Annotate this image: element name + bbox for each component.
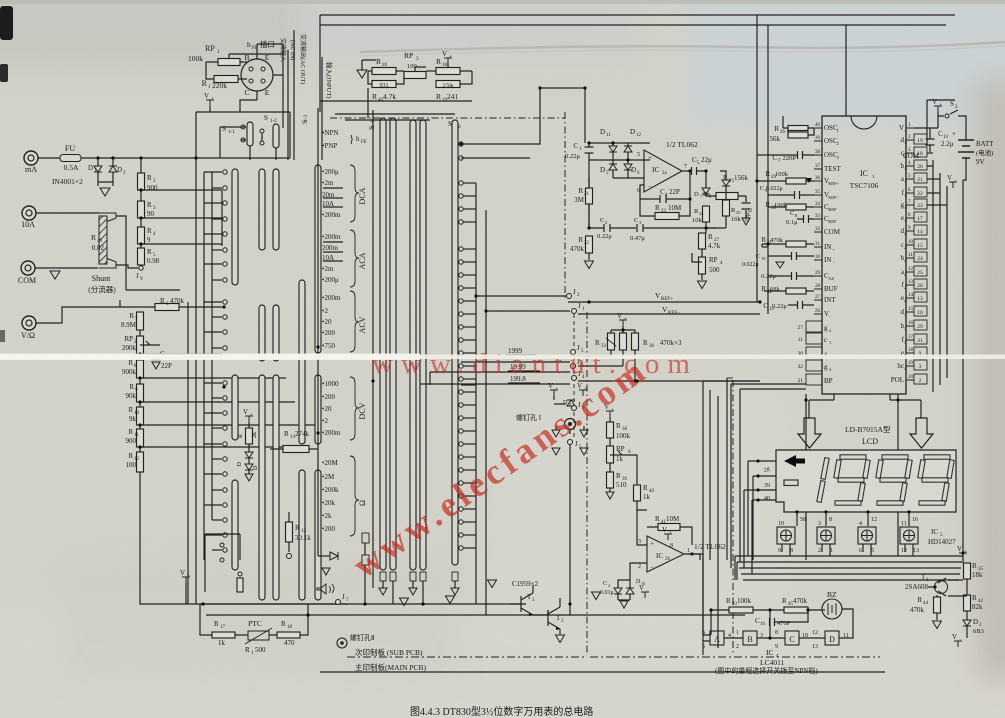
svg-text:6: 6 [859, 548, 862, 554]
svg-text:22μ: 22μ [701, 156, 712, 164]
ground top mid [357, 70, 367, 78]
svg-text:4: 4 [859, 521, 862, 527]
svg-text:1k: 1k [643, 493, 651, 501]
capacitor C2 0.22u [589, 160, 604, 228]
diode D2 [112, 158, 114, 166]
svg-text:470k: 470k [910, 606, 925, 614]
svg-text:+: + [939, 103, 942, 108]
op-amp IC2b [647, 536, 684, 572]
resistor R42 82k [966, 579, 968, 595]
svg-text:B: B [244, 53, 249, 62]
svg-text:R: R [295, 524, 300, 532]
svg-text:V/Ω: V/Ω [21, 331, 35, 340]
capacitor C3 0.47u [610, 227, 636, 229]
capacitor C6 22u [745, 196, 747, 202]
svg-text:V: V [639, 584, 644, 592]
svg-text:D: D [600, 166, 605, 174]
svg-text:11: 11 [901, 521, 907, 527]
svg-text:470k: 470k [770, 237, 784, 244]
svg-text:C: C [756, 253, 760, 260]
svg-text:ACV: ACV [358, 316, 367, 333]
svg-text:8: 8 [829, 517, 832, 523]
svg-text:+: + [648, 154, 652, 162]
svg-text:10: 10 [761, 256, 766, 261]
svg-text:14: 14 [917, 229, 923, 235]
node J1 [486, 310, 570, 312]
LCD digit 9 (b) [882, 455, 908, 459]
svg-text:IN: IN [824, 256, 831, 264]
gate C [785, 631, 799, 645]
svg-text:10k: 10k [692, 217, 703, 224]
svg-text:27: 27 [798, 325, 804, 331]
XOR gates IC5 [777, 527, 795, 544]
dashed vertical J column [573, 314, 575, 440]
svg-text:bc: bc [897, 362, 904, 370]
svg-text:C: C [790, 210, 794, 217]
svg-text:1-2: 1-2 [270, 119, 277, 124]
svg-text:(AC IN): (AC IN) [289, 40, 296, 60]
svg-text:28: 28 [763, 467, 770, 474]
svg-text:1: 1 [904, 218, 906, 223]
resistor R10 9k [139, 402, 141, 407]
wire battery minus down [963, 166, 966, 560]
svg-text:FU: FU [65, 144, 75, 153]
resistor R13 2k [245, 416, 253, 422]
resistor R27 4.7k [705, 228, 707, 233]
svg-text:2: 2 [904, 245, 906, 250]
bottom of wafer bars grounds [380, 572, 386, 581]
svg-text:900k: 900k [122, 368, 137, 376]
svg-text:(分流器): (分流器) [88, 284, 116, 294]
svg-text:R: R [372, 92, 377, 101]
svg-text:0.02: 0.02 [92, 244, 105, 252]
wire bundle left of LCD [731, 384, 740, 568]
svg-text:−: − [959, 638, 962, 643]
svg-text:100k: 100k [775, 171, 789, 178]
wires IC1 bottom to LCD [809, 394, 921, 418]
resistor R1 220k [214, 76, 238, 83]
svg-text:•2: •2 [322, 417, 328, 425]
svg-text:C: C [603, 581, 607, 587]
svg-text:22P: 22P [669, 188, 680, 196]
svg-text:IC: IC [652, 165, 660, 174]
resistor R44 470k [934, 597, 941, 613]
svg-text:37: 37 [815, 164, 821, 169]
svg-text:S: S [950, 100, 954, 108]
bus verticals left of LCD [703, 378, 727, 655]
svg-text:•20k: •20k [322, 499, 335, 507]
svg-text:10M: 10M [668, 204, 682, 212]
resistor R39 510 [609, 463, 611, 472]
svg-text:D: D [829, 635, 835, 644]
svg-text:34: 34 [815, 202, 821, 207]
svg-text:S: S [448, 120, 452, 128]
resistor R11 900 [139, 425, 141, 429]
grounds at screw [556, 426, 584, 434]
svg-text:18: 18 [908, 348, 914, 353]
svg-text:Ω: Ω [358, 500, 367, 506]
bus under gates [735, 555, 963, 557]
svg-text:R: R [774, 125, 779, 133]
svg-text:2: 2 [818, 548, 821, 554]
svg-text:1k: 1k [218, 639, 226, 647]
terminal J9 [140, 265, 142, 266]
svg-text:R: R [616, 472, 621, 480]
svg-text:12: 12 [636, 133, 642, 138]
svg-text:8: 8 [775, 630, 778, 636]
jack 10A [22, 206, 36, 220]
svg-text:0.22μ: 0.22μ [597, 233, 612, 240]
svg-text:23: 23 [917, 203, 923, 209]
svg-text:ACA: ACA [358, 252, 367, 269]
watermark elecfans [346, 349, 656, 586]
svg-text:31: 31 [917, 338, 923, 344]
resistor R9 90k [139, 378, 141, 384]
svg-text:28: 28 [815, 284, 821, 289]
svg-text:BZ: BZ [827, 590, 837, 599]
wire V/ohm [36, 307, 140, 323]
boundary wire x318 [317, 108, 319, 556]
V+ pair at J8 [550, 390, 558, 396]
svg-text:E: E [265, 53, 270, 62]
svg-text:R: R [129, 383, 134, 391]
svg-text:BP: BP [824, 377, 833, 385]
svg-text:C: C [748, 208, 754, 212]
svg-text:J: J [573, 288, 576, 296]
svg-text:220P: 220P [783, 155, 797, 162]
svg-text:R: R [578, 236, 583, 244]
dash-dot right border [727, 377, 733, 379]
contacts bottom left block [205, 534, 240, 592]
svg-text:R: R [578, 187, 583, 195]
svg-text:38: 38 [815, 150, 821, 155]
junction dots [96, 156, 99, 159]
svg-text:58: 58 [800, 517, 806, 523]
svg-text:D: D [630, 128, 635, 136]
svg-text:19: 19 [917, 138, 923, 144]
svg-text:2: 2 [904, 298, 906, 303]
svg-text:S: S [222, 124, 226, 133]
svg-text:1: 1 [904, 166, 906, 171]
svg-text:−: − [646, 589, 649, 594]
svg-text:30.1k: 30.1k [295, 534, 311, 542]
svg-text:V: V [932, 98, 937, 106]
svg-text:29: 29 [815, 271, 821, 276]
svg-text:2: 2 [904, 231, 906, 236]
svg-text:•20: •20 [322, 318, 332, 326]
svg-text:C: C [760, 185, 764, 192]
svg-text:32: 32 [798, 364, 804, 370]
svg-text:•2m: •2m [322, 179, 334, 187]
wire mA rail [81, 157, 290, 159]
svg-text:C: C [244, 88, 249, 97]
svg-text:R: R [147, 174, 152, 182]
svg-text:+: + [187, 574, 190, 579]
LCD digit 9 (a) [840, 455, 866, 459]
svg-text:18: 18 [287, 625, 293, 630]
svg-text:图4.4.3 DT830型3½位数字万用表的总电路: 图4.4.3 DT830型3½位数字万用表的总电路 [410, 705, 593, 718]
svg-text:R: R [91, 233, 96, 242]
svg-text:21: 21 [584, 192, 590, 197]
resistor R7 8.9M [137, 312, 144, 330]
V+ bottom left [182, 577, 190, 583]
svg-text:0.22μ: 0.22μ [772, 303, 787, 310]
svg-text:D: D [694, 191, 699, 198]
svg-text:R: R [147, 248, 152, 256]
svg-text:R: R [761, 285, 766, 293]
svg-text:40: 40 [815, 123, 821, 128]
svg-text:R: R [643, 484, 648, 492]
svg-text:1: 1 [904, 193, 906, 198]
svg-text:D: D [237, 461, 243, 466]
svg-text:241: 241 [447, 92, 459, 101]
svg-text:6Β3: 6Β3 [973, 628, 984, 635]
svg-text:•2: •2 [322, 307, 328, 315]
resistor R4 9 [140, 218, 142, 227]
svg-text:IN: IN [824, 243, 831, 251]
svg-text:•200μ: •200μ [322, 276, 339, 284]
svg-text:3M: 3M [574, 196, 585, 204]
jack COM [21, 261, 35, 275]
svg-text:17: 17 [220, 625, 226, 630]
svg-text:32: 32 [815, 227, 821, 232]
svg-text:21: 21 [917, 177, 923, 183]
svg-text:•200m: •200m [322, 294, 341, 302]
svg-text:+: + [211, 97, 214, 102]
resistor R26b 10k [725, 186, 727, 200]
capacitor C17 22P [140, 356, 152, 358]
wire V+ rail right [914, 116, 938, 128]
svg-text:REF: REF [828, 207, 837, 212]
svg-text:1: 1 [829, 340, 831, 345]
svg-text:D: D [117, 166, 122, 174]
diode D8 [554, 396, 566, 404]
resistor R6 470k [119, 300, 121, 307]
svg-text:0.22μ: 0.22μ [565, 153, 580, 160]
svg-text:19: 19 [908, 361, 914, 366]
svg-text:11: 11 [606, 133, 611, 138]
svg-text:C: C [573, 142, 578, 150]
svg-text:9: 9 [775, 644, 778, 650]
jack mA [24, 151, 38, 165]
svg-text:c: c [824, 336, 827, 344]
svg-text:500: 500 [709, 266, 720, 274]
diodes D9 D10 [618, 580, 630, 588]
svg-text:•2M: •2M [322, 473, 335, 481]
svg-text:156k: 156k [734, 174, 749, 182]
svg-text:8.9M: 8.9M [121, 321, 137, 329]
contact column S1-6 [459, 142, 463, 146]
svg-text:R: R [643, 339, 648, 347]
jack V/ohm [22, 316, 36, 330]
svg-text:交流输出(AC OUT): 交流输出(AC OUT) [299, 34, 307, 84]
svg-text:R: R [708, 233, 713, 241]
svg-text:•200m: •200m [322, 211, 341, 219]
svg-text:270k: 270k [443, 83, 454, 89]
svg-text:•200: •200 [322, 393, 335, 401]
svg-text:16: 16 [912, 517, 918, 523]
svg-text:R: R [129, 312, 134, 320]
wire R12 bottom long [140, 472, 348, 604]
resistor R35 18k [959, 553, 967, 559]
svg-text:56k: 56k [770, 135, 781, 143]
LCD digit 1 [821, 458, 829, 480]
svg-text:0.1μ: 0.1μ [786, 219, 798, 226]
svg-text:主印制板(MAIN PCB): 主印制板(MAIN PCB) [355, 662, 427, 672]
resistor R8 900k [139, 354, 141, 360]
svg-text:22: 22 [917, 191, 923, 197]
svg-text:100k: 100k [616, 432, 631, 440]
svg-text:}: } [349, 133, 354, 145]
svg-text:LD-B7015A型: LD-B7015A型 [845, 425, 891, 434]
block arrow left [798, 418, 821, 448]
svg-text:R: R [761, 236, 766, 244]
svg-text:E: E [265, 88, 270, 97]
svg-text:R: R [595, 339, 600, 347]
svg-text:3: 3 [638, 539, 641, 545]
svg-text:2: 2 [605, 220, 607, 225]
diodes D7 D8b [705, 184, 707, 188]
svg-text:R: R [376, 57, 381, 66]
svg-text:R: R [128, 359, 133, 367]
svg-text:RP: RP [709, 256, 718, 264]
potentiometer RP4 500 [701, 249, 703, 257]
svg-text:4.7k: 4.7k [383, 92, 396, 101]
svg-text:mA: mA [25, 165, 37, 174]
svg-text:3: 3 [919, 364, 922, 370]
svg-text:1-3: 1-3 [304, 114, 309, 121]
potentiometer RP1 100k [218, 59, 240, 66]
svg-text:D: D [600, 128, 605, 136]
svg-text:22: 22 [584, 241, 590, 246]
svg-text:15: 15 [917, 243, 923, 249]
svg-text:R: R [972, 594, 977, 602]
svg-text:V: V [548, 382, 553, 390]
svg-text:0.98: 0.98 [147, 257, 160, 265]
svg-text:12: 12 [901, 548, 907, 554]
svg-text:2: 2 [638, 564, 641, 570]
svg-text:R: R [284, 430, 289, 438]
svg-text:1-1: 1-1 [228, 130, 235, 135]
diode mid [318, 555, 330, 557]
svg-text:90k: 90k [126, 392, 137, 400]
svg-text:200k: 200k [122, 344, 137, 352]
svg-text:2: 2 [837, 141, 839, 146]
svg-text:•200: •200 [322, 329, 335, 337]
svg-text:•200: •200 [322, 525, 335, 533]
svg-text:10: 10 [908, 240, 914, 245]
svg-text:RP: RP [616, 445, 625, 453]
svg-text:26: 26 [917, 283, 923, 289]
wire top bus into cluster [540, 88, 585, 143]
resistor R3 90 [140, 190, 142, 201]
svg-text:A: A [714, 635, 720, 644]
svg-text:DCV: DCV [358, 402, 367, 419]
svg-text:10: 10 [917, 310, 923, 316]
long rail from J4 [578, 380, 760, 382]
svg-text:100: 100 [126, 461, 137, 469]
svg-text:+: + [449, 55, 452, 60]
svg-text:h: h [247, 40, 251, 49]
svg-text:R: R [723, 174, 728, 182]
svg-text:J: J [136, 272, 139, 280]
IC1 TSC7106 body [822, 116, 906, 394]
svg-text:J: J [575, 440, 578, 448]
svg-text:V: V [957, 545, 962, 553]
svg-text:h: h [356, 135, 360, 143]
svg-text:82k: 82k [972, 603, 983, 611]
svg-text:10: 10 [778, 521, 784, 527]
zener D2b [966, 611, 968, 620]
node J8 [572, 406, 577, 411]
svg-text:R: R [655, 204, 660, 212]
svg-text:5: 5 [702, 644, 705, 650]
svg-text:2.2μ: 2.2μ [941, 140, 954, 148]
svg-text:C: C [600, 217, 604, 224]
wire 10A to shunt [36, 212, 99, 214]
svg-text:220k: 220k [212, 81, 227, 90]
potentiometer RP2 200k [139, 330, 141, 336]
svg-text:10k: 10k [731, 216, 742, 223]
svg-text:g: g [824, 324, 828, 332]
svg-text:R: R [128, 428, 133, 436]
svg-text:−: − [832, 260, 835, 265]
svg-text:REF−: REF− [828, 195, 839, 200]
svg-text:IC: IC [766, 648, 774, 657]
svg-text:2b: 2b [665, 557, 671, 562]
IC1 right pins [906, 127, 914, 129]
svg-text:•PNP: •PNP [322, 142, 337, 150]
left edge dark marks [0, 6, 13, 40]
wires left column verticals [757, 15, 783, 314]
svg-text:TEST: TEST [824, 165, 841, 173]
wire COM [35, 267, 98, 269]
block arrow right [910, 418, 933, 448]
diodes D3 D4 [248, 444, 250, 452]
gate A [710, 631, 724, 645]
svg-text:R: R [238, 434, 244, 438]
resistor R40 1k [634, 485, 641, 501]
svg-text:16: 16 [760, 622, 766, 627]
shunt resistor R49 0.02 [99, 213, 116, 268]
svg-text:9k: 9k [129, 415, 137, 423]
svg-text:36: 36 [815, 176, 821, 181]
svg-text:R: R [616, 422, 621, 430]
svg-text:•200k: •200k [322, 486, 339, 494]
svg-text:•20M: •20M [322, 459, 338, 467]
svg-text:R: R [655, 515, 660, 523]
svg-text:D: D [253, 465, 259, 470]
wire socket connections [240, 44, 283, 112]
svg-text:7: 7 [684, 164, 687, 170]
node J5b [568, 440, 573, 445]
LCD pointer arrow [784, 455, 805, 467]
svg-text:•1000: •1000 [322, 380, 339, 388]
svg-text:R: R [436, 57, 441, 66]
svg-text:•20: •20 [322, 405, 332, 413]
svg-text:•200m: •200m [322, 233, 341, 241]
wire long bottom rails [200, 604, 745, 615]
resistor R15 30.1k [286, 522, 293, 542]
svg-text:900: 900 [147, 184, 158, 192]
svg-text:+: + [250, 413, 253, 418]
svg-text:29: 29 [917, 324, 923, 330]
svg-text:R: R [214, 620, 219, 628]
svg-text:BATT: BATT [976, 140, 994, 148]
svg-text:次印制板 (SUB PCB): 次印制板 (SUB PCB) [355, 647, 423, 657]
svg-text:COM: COM [903, 152, 920, 160]
svg-text:R: R [782, 597, 787, 605]
